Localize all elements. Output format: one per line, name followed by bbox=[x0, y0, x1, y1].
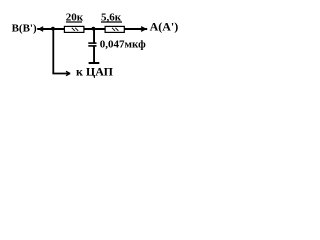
wire: between R1 and R2 bbox=[84, 28, 105, 30]
node junction middle bbox=[92, 27, 96, 31]
resistor R1 body bbox=[64, 26, 84, 32]
underline of 5,6k bbox=[101, 21, 122, 23]
resistor R2 power marks bbox=[112, 28, 118, 31]
capacitor C1 top lead bbox=[93, 29, 95, 43]
capacitor C1 plate bottom bbox=[88, 45, 96, 47]
node junction left bbox=[51, 27, 55, 31]
resistor R1 power marks bbox=[72, 28, 78, 31]
svg-text:А(А'): А(А') bbox=[150, 20, 179, 34]
wire: bottom horizontal to DAC bbox=[52, 73, 70, 75]
wire: vertical down from left junction bbox=[52, 29, 54, 74]
wire: input B to R1 bbox=[37, 28, 64, 30]
svg-text:В(В'): В(В') bbox=[12, 22, 37, 34]
svg-text:0,047мкф: 0,047мкф bbox=[100, 38, 146, 50]
wire: R2 to output arrow bbox=[125, 28, 148, 30]
underline of 20k bbox=[66, 21, 82, 23]
capacitor C1 terminal bar bbox=[89, 62, 100, 64]
arrowhead right (to DAC) bbox=[66, 71, 70, 75]
svg-text:к ЦАП: к ЦАП bbox=[76, 64, 114, 78]
capacitor C1 bottom lead bbox=[93, 46, 95, 62]
resistor R2 body bbox=[105, 26, 124, 32]
arrowhead right (output A) bbox=[141, 27, 145, 32]
capacitor C1 plate top bbox=[88, 42, 96, 44]
arrowhead left (input B) bbox=[40, 27, 44, 31]
